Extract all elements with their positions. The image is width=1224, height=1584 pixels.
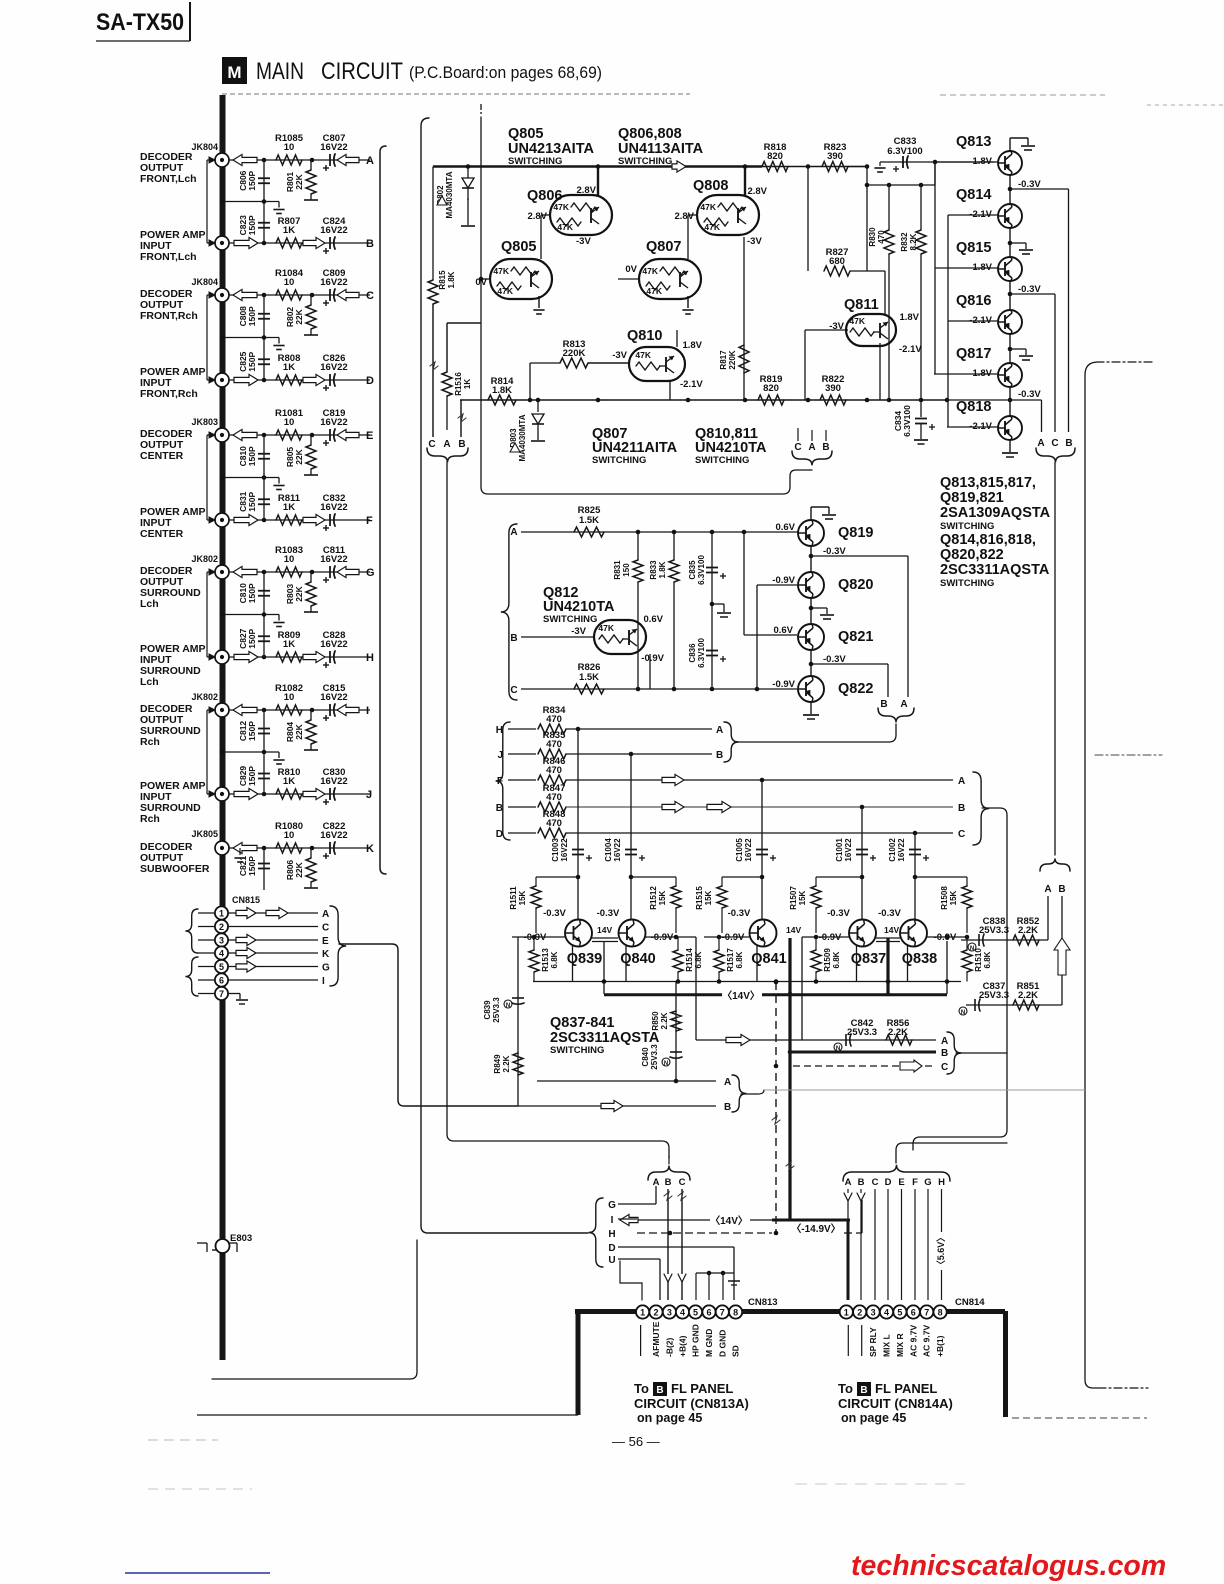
svg-text:0.6V: 0.6V <box>643 614 663 625</box>
svg-text:5: 5 <box>897 1307 902 1317</box>
svg-text:AC 9.7V: AC 9.7V <box>908 1325 918 1357</box>
svg-text:2SC3311AQSTA: 2SC3311AQSTA <box>550 1030 660 1046</box>
svg-text:C: C <box>1051 438 1058 449</box>
svg-text:JK802: JK802 <box>191 692 218 702</box>
svg-text:(P.C.Board:on pages 68,69): (P.C.Board:on pages 68,69) <box>409 64 602 82</box>
svg-text:150P: 150P <box>247 306 257 326</box>
svg-text:-B(2): -B(2) <box>664 1337 674 1357</box>
svg-text:8.2K: 8.2K <box>909 233 918 250</box>
svg-text:Q806,808: Q806,808 <box>618 126 682 142</box>
svg-text:K: K <box>366 843 374 855</box>
svg-text:on page 45: on page 45 <box>637 1411 702 1425</box>
svg-text:150P: 150P <box>247 215 257 235</box>
svg-text:G: G <box>366 567 375 579</box>
svg-text:0.6V: 0.6V <box>773 625 793 636</box>
svg-text:5: 5 <box>219 962 224 972</box>
svg-text:A: A <box>716 725 723 736</box>
svg-text:1K: 1K <box>283 502 295 513</box>
svg-text:150P: 150P <box>247 856 257 876</box>
svg-text:8: 8 <box>938 1307 943 1317</box>
svg-text:D: D <box>885 1177 892 1188</box>
svg-text:2.8V: 2.8V <box>747 186 767 197</box>
svg-text:H: H <box>496 725 503 736</box>
svg-text:FRONT,Lch: FRONT,Lch <box>140 173 197 185</box>
svg-text:820: 820 <box>763 383 779 394</box>
svg-text:22K: 22K <box>294 448 304 464</box>
svg-text:2.2K: 2.2K <box>502 1055 511 1072</box>
svg-text:Q837-841: Q837-841 <box>550 1015 615 1031</box>
svg-text:Q813: Q813 <box>956 134 991 150</box>
svg-text:7: 7 <box>219 989 224 999</box>
svg-text:150P: 150P <box>247 721 257 741</box>
svg-text:G: G <box>924 1177 931 1188</box>
svg-text:FL PANEL: FL PANEL <box>671 1381 733 1396</box>
svg-text:U: U <box>608 1255 615 1266</box>
svg-text:1.8K: 1.8K <box>658 561 667 578</box>
svg-text:B: B <box>716 750 723 761</box>
svg-text:16V22: 16V22 <box>320 277 347 288</box>
svg-text:B: B <box>1065 438 1072 449</box>
svg-text:CN815: CN815 <box>232 895 260 905</box>
svg-text:C1005: C1005 <box>735 838 744 862</box>
svg-text:F: F <box>366 515 373 527</box>
svg-text:25V3.3: 25V3.3 <box>492 997 501 1023</box>
svg-text:470: 470 <box>546 765 562 776</box>
svg-text:22K: 22K <box>294 308 304 324</box>
svg-text:1K: 1K <box>283 776 295 787</box>
svg-text:7: 7 <box>924 1307 929 1317</box>
svg-text:14V: 14V <box>786 925 801 935</box>
svg-text:FRONT,Rch: FRONT,Rch <box>140 388 198 400</box>
svg-text:R1512: R1512 <box>649 886 658 910</box>
svg-text:F: F <box>497 776 503 787</box>
svg-text:-3V: -3V <box>571 626 586 637</box>
svg-text:Q814,816,818,: Q814,816,818, <box>940 532 1036 548</box>
svg-text:Rch: Rch <box>140 813 160 825</box>
svg-text:AC 9.7V: AC 9.7V <box>922 1325 932 1357</box>
svg-text:47K: 47K <box>598 623 614 633</box>
svg-text:10: 10 <box>284 830 295 841</box>
svg-text:2.8V: 2.8V <box>576 185 596 196</box>
svg-text:FRONT,Lch: FRONT,Lch <box>140 251 197 263</box>
svg-text:47K: 47K <box>557 222 573 232</box>
svg-text:CENTER: CENTER <box>140 528 184 540</box>
svg-text:E: E <box>898 1177 904 1188</box>
svg-text:CIRCUIT: CIRCUIT <box>321 58 403 85</box>
svg-text:〈5.6V〉: 〈5.6V〉 <box>936 1233 946 1270</box>
svg-text:C: C <box>510 685 517 696</box>
svg-text:470: 470 <box>546 714 562 725</box>
svg-text:SWITCHING: SWITCHING <box>940 578 994 589</box>
svg-text:R817: R817 <box>719 350 728 370</box>
svg-text:H: H <box>938 1177 945 1188</box>
svg-text:H: H <box>366 652 374 664</box>
svg-text:Q816: Q816 <box>956 293 991 309</box>
svg-text:16V22: 16V22 <box>320 692 347 703</box>
svg-text:6.3V100: 6.3V100 <box>902 405 912 437</box>
svg-text:1.8K: 1.8K <box>492 385 512 396</box>
svg-text:SUBWOOFER: SUBWOOFER <box>140 863 210 875</box>
svg-text:Q807: Q807 <box>646 239 681 255</box>
svg-text:J: J <box>366 789 372 801</box>
svg-text:B: B <box>665 1177 672 1188</box>
svg-text:150P: 150P <box>247 351 257 371</box>
svg-text:150P: 150P <box>247 583 257 603</box>
svg-text:CN813: CN813 <box>748 1297 778 1308</box>
svg-text:10: 10 <box>284 417 295 428</box>
svg-text:16V22: 16V22 <box>320 142 347 153</box>
svg-text:To: To <box>838 1381 853 1396</box>
svg-text:JK805: JK805 <box>191 829 218 839</box>
svg-text:N: N <box>961 1010 965 1016</box>
svg-text:SWITCHING: SWITCHING <box>695 455 749 466</box>
svg-text:Q811: Q811 <box>844 297 879 313</box>
svg-text:2: 2 <box>653 1307 658 1317</box>
svg-text:5: 5 <box>693 1307 698 1317</box>
svg-text:16V22: 16V22 <box>320 417 347 428</box>
svg-text:16V22: 16V22 <box>844 838 853 862</box>
svg-text:0.6V: 0.6V <box>775 522 795 533</box>
svg-text:F: F <box>912 1177 918 1188</box>
svg-text:47K: 47K <box>700 202 716 212</box>
svg-text:A: A <box>900 699 907 710</box>
svg-text:16V22: 16V22 <box>320 362 347 373</box>
svg-text:B: B <box>858 1177 865 1188</box>
svg-text:7: 7 <box>720 1307 725 1317</box>
svg-text:Q818: Q818 <box>956 399 991 415</box>
svg-text:Q820,822: Q820,822 <box>940 547 1004 563</box>
svg-text:〈14V〉: 〈14V〉 <box>722 989 760 1002</box>
svg-text:150P: 150P <box>247 628 257 648</box>
svg-text:1.5K: 1.5K <box>579 515 599 526</box>
svg-text:2.2K: 2.2K <box>1018 990 1038 1001</box>
svg-text:R832: R832 <box>900 232 909 252</box>
svg-text:MA4030MTA: MA4030MTA <box>445 171 454 218</box>
svg-text:MAIN: MAIN <box>256 58 304 85</box>
svg-text:10: 10 <box>284 277 295 288</box>
svg-text:820: 820 <box>767 151 783 162</box>
svg-text:10: 10 <box>284 142 295 153</box>
svg-text:390: 390 <box>827 151 843 162</box>
svg-text:JK804: JK804 <box>191 277 218 287</box>
svg-text:A: A <box>1044 884 1051 895</box>
svg-text:〈-14.9V〉: 〈-14.9V〉 <box>791 1222 840 1235</box>
svg-text:UN4113AITA: UN4113AITA <box>618 141 704 157</box>
svg-text:2.8V: 2.8V <box>527 211 547 222</box>
svg-text:on page 45: on page 45 <box>841 1411 906 1425</box>
svg-text:MIX R: MIX R <box>895 1333 905 1357</box>
svg-text:+B(4): +B(4) <box>678 1335 688 1357</box>
svg-text:2SC3311AQSTA: 2SC3311AQSTA <box>940 562 1050 578</box>
svg-text:2: 2 <box>219 922 224 932</box>
svg-text:C: C <box>941 1062 948 1073</box>
svg-text:16V22: 16V22 <box>744 838 753 862</box>
svg-text:16V22: 16V22 <box>897 838 906 862</box>
svg-text:M: M <box>227 63 241 82</box>
svg-text:C836: C836 <box>688 643 697 663</box>
svg-text:C: C <box>679 1177 686 1188</box>
svg-text:6.8K: 6.8K <box>832 951 841 968</box>
svg-text:B: B <box>496 803 503 814</box>
svg-text:1.8K: 1.8K <box>447 271 456 288</box>
svg-text:6.8K: 6.8K <box>550 951 559 968</box>
svg-text:C: C <box>794 442 801 453</box>
svg-text:C1003: C1003 <box>551 838 560 862</box>
svg-text:22K: 22K <box>294 585 304 601</box>
svg-text:D: D <box>366 375 374 387</box>
svg-text:1: 1 <box>844 1307 849 1317</box>
svg-text:2.2K: 2.2K <box>660 1012 669 1029</box>
svg-text:E: E <box>366 430 373 442</box>
svg-text:R1514: R1514 <box>685 948 694 972</box>
svg-text:B: B <box>941 1048 948 1059</box>
svg-text:6.8K: 6.8K <box>983 951 992 968</box>
svg-text:R1511: R1511 <box>509 886 518 910</box>
svg-text:2: 2 <box>857 1307 862 1317</box>
svg-text:UN4210TA: UN4210TA <box>695 440 767 456</box>
svg-text:R1507: R1507 <box>789 886 798 910</box>
svg-text:CN814: CN814 <box>955 1297 985 1308</box>
svg-text:Q821: Q821 <box>838 629 873 645</box>
svg-text:150P: 150P <box>247 170 257 190</box>
svg-text:47K: 47K <box>635 350 651 360</box>
svg-text:JK803: JK803 <box>191 417 218 427</box>
svg-text:A: A <box>941 1036 948 1047</box>
svg-text:+B(1): +B(1) <box>935 1335 945 1357</box>
svg-text:16V22: 16V22 <box>320 776 347 787</box>
svg-text:R1513: R1513 <box>541 948 550 972</box>
svg-text:150P: 150P <box>247 766 257 786</box>
svg-text:14V: 14V <box>884 925 899 935</box>
svg-text:B: B <box>510 633 517 644</box>
svg-text:16V22: 16V22 <box>613 838 622 862</box>
svg-text:Q810: Q810 <box>627 328 662 344</box>
svg-text:technicscatalogus.com: technicscatalogus.com <box>851 1550 1166 1582</box>
svg-text:15K: 15K <box>949 890 958 905</box>
svg-text:To: To <box>634 1381 649 1396</box>
svg-text:25V3.3: 25V3.3 <box>847 1027 877 1038</box>
svg-text:R1510: R1510 <box>974 948 983 972</box>
svg-text:SP RLY: SP RLY <box>868 1327 878 1357</box>
svg-text:CIRCUIT (CN813A): CIRCUIT (CN813A) <box>634 1396 749 1411</box>
svg-text:47K: 47K <box>704 222 720 232</box>
svg-text:B: B <box>724 1102 731 1113</box>
svg-text:Q814: Q814 <box>956 187 991 203</box>
svg-text:47K: 47K <box>642 266 658 276</box>
svg-text:1K: 1K <box>283 362 295 373</box>
svg-text:-0.3V: -0.3V <box>1018 389 1041 400</box>
svg-text:6: 6 <box>706 1307 711 1317</box>
svg-text:1.5K: 1.5K <box>579 672 599 683</box>
svg-text:-0.9V: -0.9V <box>641 653 664 664</box>
svg-text:R831: R831 <box>613 560 622 580</box>
svg-text:16V22: 16V22 <box>320 502 347 513</box>
svg-text:Q822: Q822 <box>838 681 873 697</box>
svg-text:N: N <box>664 1061 668 1067</box>
svg-text:A: A <box>845 1177 852 1188</box>
svg-text:-2.1V: -2.1V <box>899 344 922 355</box>
svg-text:B: B <box>958 803 965 814</box>
svg-text:47K: 47K <box>646 286 662 296</box>
svg-text:R1517: R1517 <box>726 948 735 972</box>
svg-text:150P: 150P <box>247 446 257 466</box>
svg-text:15K: 15K <box>798 890 807 905</box>
svg-text:Q805: Q805 <box>508 126 543 142</box>
svg-text:CENTER: CENTER <box>140 450 184 462</box>
svg-text:C: C <box>322 923 329 934</box>
svg-text:150P: 150P <box>247 491 257 511</box>
svg-text:-3V: -3V <box>612 350 627 361</box>
svg-text:N: N <box>970 946 974 952</box>
svg-text:Lch: Lch <box>140 676 159 688</box>
svg-text:Q817: Q817 <box>956 346 991 362</box>
svg-text:J: J <box>497 750 503 761</box>
svg-text:UN4213AITA: UN4213AITA <box>508 141 594 157</box>
svg-text:16V22: 16V22 <box>320 225 347 236</box>
svg-text:I: I <box>322 976 325 987</box>
svg-text:2.8V: 2.8V <box>674 211 694 222</box>
svg-text:22K: 22K <box>294 173 304 189</box>
svg-text:2SA1309AQSTA: 2SA1309AQSTA <box>940 505 1051 521</box>
svg-text:4: 4 <box>884 1307 889 1317</box>
svg-text:I: I <box>611 1215 614 1226</box>
svg-text:Rch: Rch <box>140 736 160 748</box>
svg-text:C1001: C1001 <box>835 838 844 862</box>
svg-text:G: G <box>608 1200 616 1211</box>
svg-text:16V22: 16V22 <box>320 830 347 841</box>
svg-text:C1002: C1002 <box>888 838 897 862</box>
svg-text:CIRCUIT (CN814A): CIRCUIT (CN814A) <box>838 1396 953 1411</box>
svg-text:B: B <box>860 1385 867 1396</box>
svg-text:3: 3 <box>219 935 224 945</box>
svg-text:HP GND: HP GND <box>691 1324 701 1357</box>
svg-text:C835: C835 <box>688 560 697 580</box>
svg-text:A: A <box>1037 438 1044 449</box>
svg-text:3: 3 <box>871 1307 876 1317</box>
svg-text:1: 1 <box>219 908 224 918</box>
svg-text:16V22: 16V22 <box>560 838 569 862</box>
svg-text:C1004: C1004 <box>604 838 613 862</box>
svg-text:15K: 15K <box>518 890 527 905</box>
svg-text:R1508: R1508 <box>940 886 949 910</box>
svg-text:FRONT,Rch: FRONT,Rch <box>140 310 198 322</box>
svg-text:SA-TX50: SA-TX50 <box>96 9 184 36</box>
svg-text:0V: 0V <box>625 264 637 275</box>
svg-text:SD: SD <box>731 1345 741 1357</box>
svg-text:6.8K: 6.8K <box>694 951 703 968</box>
svg-text:-3V: -3V <box>747 236 762 247</box>
svg-text:JK802: JK802 <box>191 554 218 564</box>
svg-text:— 56 —: — 56 — <box>612 1434 660 1449</box>
svg-text:16V22: 16V22 <box>320 639 347 650</box>
svg-text:25V3.3: 25V3.3 <box>650 1044 659 1070</box>
svg-text:47K: 47K <box>493 266 509 276</box>
svg-text:〈14V〉: 〈14V〉 <box>710 1214 748 1227</box>
svg-text:R1515: R1515 <box>695 886 704 910</box>
svg-text:UN4211AITA: UN4211AITA <box>592 440 678 456</box>
svg-text:15K: 15K <box>704 890 713 905</box>
svg-text:6.8K: 6.8K <box>735 951 744 968</box>
svg-text:N: N <box>506 1003 510 1009</box>
svg-text:-0.3V: -0.3V <box>597 908 620 919</box>
svg-text:220K: 220K <box>728 350 737 369</box>
svg-text:Q819,821: Q819,821 <box>940 490 1004 506</box>
svg-text:1: 1 <box>640 1307 645 1317</box>
svg-text:1K: 1K <box>463 379 472 389</box>
svg-text:Q813,815,817,: Q813,815,817, <box>940 475 1036 491</box>
svg-text:15K: 15K <box>658 890 667 905</box>
svg-text:SWITCHING: SWITCHING <box>940 521 994 532</box>
svg-text:UN4210TA: UN4210TA <box>543 599 615 615</box>
svg-text:A: A <box>510 527 517 538</box>
svg-text:8: 8 <box>733 1307 738 1317</box>
svg-text:6.3V100: 6.3V100 <box>697 638 706 668</box>
svg-text:E803: E803 <box>230 1233 252 1244</box>
svg-text:R850: R850 <box>651 1011 660 1031</box>
svg-text:680: 680 <box>829 256 845 267</box>
svg-text:E: E <box>322 936 329 947</box>
svg-text:1K: 1K <box>283 639 295 650</box>
svg-text:6.3V100: 6.3V100 <box>887 146 922 157</box>
svg-text:B: B <box>880 699 887 710</box>
svg-text:22K: 22K <box>294 723 304 739</box>
svg-text:1.8V: 1.8V <box>899 312 919 323</box>
svg-text:MIX L: MIX L <box>882 1334 892 1357</box>
svg-text:47K: 47K <box>497 286 513 296</box>
svg-text:Q819: Q819 <box>838 525 873 541</box>
svg-text:D GND: D GND <box>717 1330 727 1357</box>
svg-text:A: A <box>653 1177 660 1188</box>
svg-text:D: D <box>608 1243 615 1254</box>
svg-text:FL PANEL: FL PANEL <box>875 1381 937 1396</box>
svg-text:MA4030MTA: MA4030MTA <box>518 414 527 461</box>
svg-text:10: 10 <box>284 692 295 703</box>
svg-text:Q815: Q815 <box>956 240 991 256</box>
svg-text:R815: R815 <box>438 270 447 290</box>
svg-text:R849: R849 <box>493 1054 502 1074</box>
svg-text:R1509: R1509 <box>823 948 832 972</box>
svg-text:C: C <box>958 829 965 840</box>
svg-text:-3V: -3V <box>576 236 591 247</box>
svg-text:1.8V: 1.8V <box>682 340 702 351</box>
svg-text:R1516: R1516 <box>454 372 463 396</box>
svg-text:150: 150 <box>622 563 631 577</box>
svg-text:-0.3V: -0.3V <box>827 908 850 919</box>
svg-text:I: I <box>366 705 369 717</box>
svg-text:-2.1V: -2.1V <box>680 379 703 390</box>
svg-text:-0.3V: -0.3V <box>878 908 901 919</box>
svg-text:SWITCHING: SWITCHING <box>508 156 562 167</box>
svg-text:G: G <box>322 963 330 974</box>
svg-text:R833: R833 <box>649 560 658 580</box>
svg-text:220K: 220K <box>563 348 586 359</box>
svg-text:6: 6 <box>219 975 224 985</box>
svg-text:B: B <box>656 1385 663 1396</box>
svg-text:390: 390 <box>825 383 841 394</box>
svg-text:A: A <box>322 909 329 920</box>
svg-text:C: C <box>366 290 374 302</box>
svg-text:D: D <box>496 829 503 840</box>
svg-text:A: A <box>443 439 450 450</box>
svg-text:14V: 14V <box>597 925 612 935</box>
svg-text:-0.3V: -0.3V <box>543 908 566 919</box>
svg-text:C: C <box>428 439 435 450</box>
svg-text:A: A <box>958 776 965 787</box>
svg-text:A: A <box>724 1077 731 1088</box>
svg-text:3: 3 <box>667 1307 672 1317</box>
svg-text:R830: R830 <box>868 227 877 247</box>
svg-text:K: K <box>322 949 330 960</box>
